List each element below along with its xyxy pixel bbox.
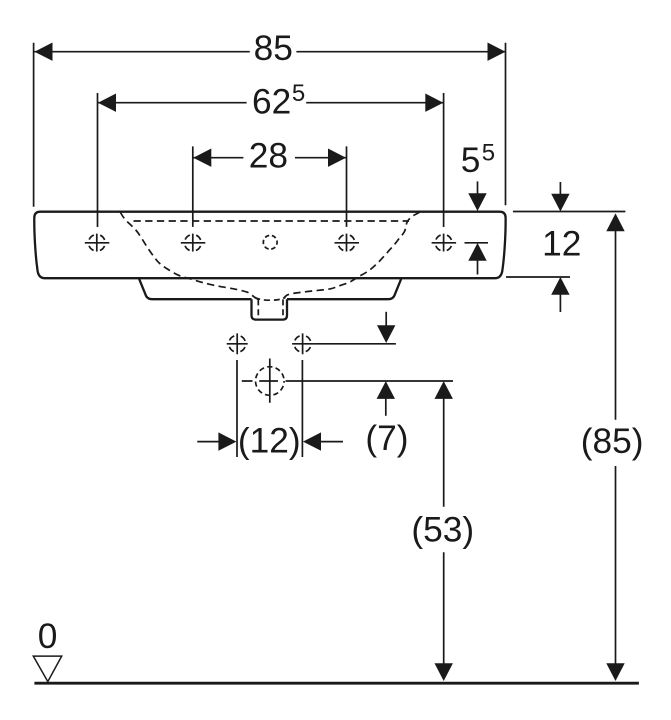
center tap hole dashed circle xyxy=(263,235,277,249)
dimension 5.5 down arrow xyxy=(477,181,479,196)
dimension 62.5 arrowheads xyxy=(98,94,116,112)
svg-text:5: 5 xyxy=(461,141,481,180)
bowl-to-drain dashed dip across drain mouth xyxy=(255,297,286,300)
dimension 5.5 up arrow xyxy=(468,243,486,261)
dimension (12) left-pointing arrow xyxy=(303,432,321,450)
svg-text:0: 0 xyxy=(38,617,58,656)
basin bowl dashed outline top edge xyxy=(134,220,410,222)
dimension 28 extension lines xyxy=(193,146,347,227)
washbasin pedestal/base xyxy=(139,278,402,299)
lower fixing hole cross right xyxy=(292,333,313,354)
dimension (53) vertical line xyxy=(443,396,445,664)
washbasin body outline xyxy=(34,212,505,279)
svg-text:28: 28 xyxy=(249,137,288,176)
dimension 62.5 extension lines xyxy=(98,93,444,227)
lower fixing hole cross left xyxy=(227,333,248,354)
tap hole cross 4 xyxy=(335,234,360,252)
drain outlet xyxy=(252,299,288,319)
svg-text:5: 5 xyxy=(482,140,495,167)
dimension 12 bottom extension line xyxy=(506,276,570,278)
dimension 28 arrowheads xyxy=(193,149,211,167)
dimension 85 extension lines xyxy=(34,43,506,207)
dimension 12 down arrow xyxy=(559,182,561,197)
drain hidden dashed lines xyxy=(258,299,283,317)
svg-text:(12): (12) xyxy=(238,422,301,461)
dimension (85) vertical line xyxy=(615,231,617,664)
svg-text:12: 12 xyxy=(542,224,581,263)
dimension 62.5 line xyxy=(98,102,443,104)
lower holes down arrow xyxy=(385,312,387,327)
tap hole cross 2 xyxy=(181,234,206,252)
dimension (12) right-pointing arrow xyxy=(197,441,221,443)
svg-text:85: 85 xyxy=(254,29,293,68)
svg-text:(53): (53) xyxy=(411,510,474,549)
dimension (53) down arrow xyxy=(435,663,453,681)
tap hole cross 5 xyxy=(432,234,457,252)
dimension (12) extension lines below crosses xyxy=(237,360,302,457)
tap hole cross 1 xyxy=(85,234,110,252)
dimension (53) up arrow xyxy=(435,381,453,399)
svg-text:(85): (85) xyxy=(581,422,644,461)
datum triangle xyxy=(33,656,61,682)
dimension (7) up arrow xyxy=(377,381,395,399)
basin bowl dashed outline right curve xyxy=(283,212,420,298)
svg-text:62: 62 xyxy=(252,82,291,121)
svg-text:5: 5 xyxy=(292,80,305,107)
mixer hole dashed circle xyxy=(255,367,284,396)
lower holes centerline extending right xyxy=(313,343,396,345)
floor line xyxy=(34,682,639,685)
dimension 12 top extension line xyxy=(513,211,625,213)
dimension 85 arrowheads xyxy=(35,43,53,61)
basin bowl dashed outline left curve xyxy=(120,212,258,299)
mixer hole cross + centerline to right xyxy=(242,359,453,403)
dimension 28 line xyxy=(193,157,346,159)
tap hole centerline tick right xyxy=(465,242,489,244)
dimension (85) down arrow xyxy=(606,663,624,681)
dimension (85) up arrow xyxy=(606,213,624,231)
dimension 12 up arrow xyxy=(551,277,569,295)
svg-text:(7): (7) xyxy=(365,419,408,458)
dimension 85 line xyxy=(35,51,506,53)
